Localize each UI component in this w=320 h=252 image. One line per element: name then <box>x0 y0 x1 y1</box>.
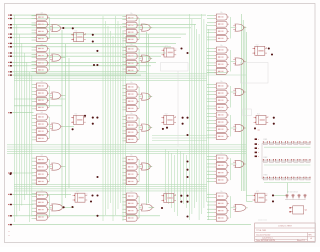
svg-text:RN1: RN1 <box>264 139 268 141</box>
svg-text:Sheet: 1/1: Sheet: 1/1 <box>297 239 305 242</box>
svg-text:IC2: IC2 <box>257 114 260 116</box>
svg-text:xxx: xxx <box>258 129 261 131</box>
svg-text:TITLE: 7485: TITLE: 7485 <box>256 230 266 232</box>
svg-text:IC2: IC2 <box>165 46 168 48</box>
svg-text:REV: REV <box>309 234 312 236</box>
svg-text:x: x <box>9 231 10 233</box>
svg-text:x: x <box>9 235 10 237</box>
svg-text:x: x <box>258 139 259 141</box>
svg-text:D1 D2 D3 D4: D1 D2 D3 D4 <box>287 191 298 193</box>
svg-text:LOGIC IC TEST: LOGIC IC TEST <box>278 225 292 227</box>
svg-text:RN3: RN3 <box>264 175 268 177</box>
svg-text:Date: 4/07/2008 3:08 PM: Date: 4/07/2008 3:08 PM <box>256 239 275 242</box>
svg-text:IC2: IC2 <box>76 191 79 193</box>
svg-text:x: x <box>258 152 259 154</box>
svg-text:Document Number:: Document Number: <box>256 233 271 236</box>
svg-text:IC2: IC2 <box>75 113 78 115</box>
svg-text:IC2: IC2 <box>256 44 259 46</box>
svg-text:x: x <box>258 144 259 146</box>
svg-text:IC2: IC2 <box>165 192 168 194</box>
svg-text:x: x <box>258 148 259 150</box>
svg-text:xxxxx xxxx: xxxxx xxxx <box>258 219 267 221</box>
svg-text:IC2: IC2 <box>75 31 78 33</box>
svg-text:Q1: Q1 <box>305 210 308 212</box>
svg-text:IC2: IC2 <box>256 191 259 193</box>
svg-text:IC2: IC2 <box>165 114 168 116</box>
svg-text:x: x <box>258 156 259 158</box>
svg-text:RN2: RN2 <box>264 157 268 159</box>
